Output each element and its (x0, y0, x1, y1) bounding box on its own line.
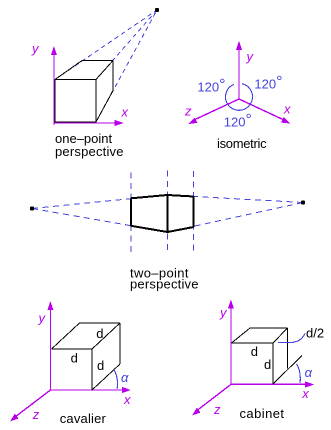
svg-text:cavalier: cavalier (60, 411, 107, 426)
svg-text:cabinet: cabinet (240, 406, 285, 421)
svg-text:x: x (283, 101, 291, 116)
svg-text:perspective: perspective (130, 277, 199, 292)
svg-text:d/2: d/2 (306, 326, 324, 341)
svg-text:d: d (97, 358, 104, 373)
svg-text:d: d (264, 357, 271, 372)
svg-text:α: α (121, 370, 129, 385)
svg-text:x: x (121, 104, 129, 119)
svg-text:perspective: perspective (55, 144, 124, 159)
svg-text:d: d (251, 344, 258, 359)
svg-text:d: d (71, 350, 78, 365)
svg-text:x: x (301, 386, 309, 401)
svg-text:z: z (32, 407, 40, 422)
svg-text:x: x (123, 392, 131, 407)
svg-text:120°: 120° (197, 77, 225, 95)
svg-text:120°: 120° (224, 111, 252, 129)
svg-text:isometric: isometric (217, 136, 267, 151)
svg-text:α: α (305, 365, 313, 380)
svg-text:z: z (184, 104, 192, 119)
svg-text:z: z (213, 402, 221, 417)
svg-text:d: d (96, 326, 103, 341)
svg-text:120°: 120° (254, 73, 282, 91)
